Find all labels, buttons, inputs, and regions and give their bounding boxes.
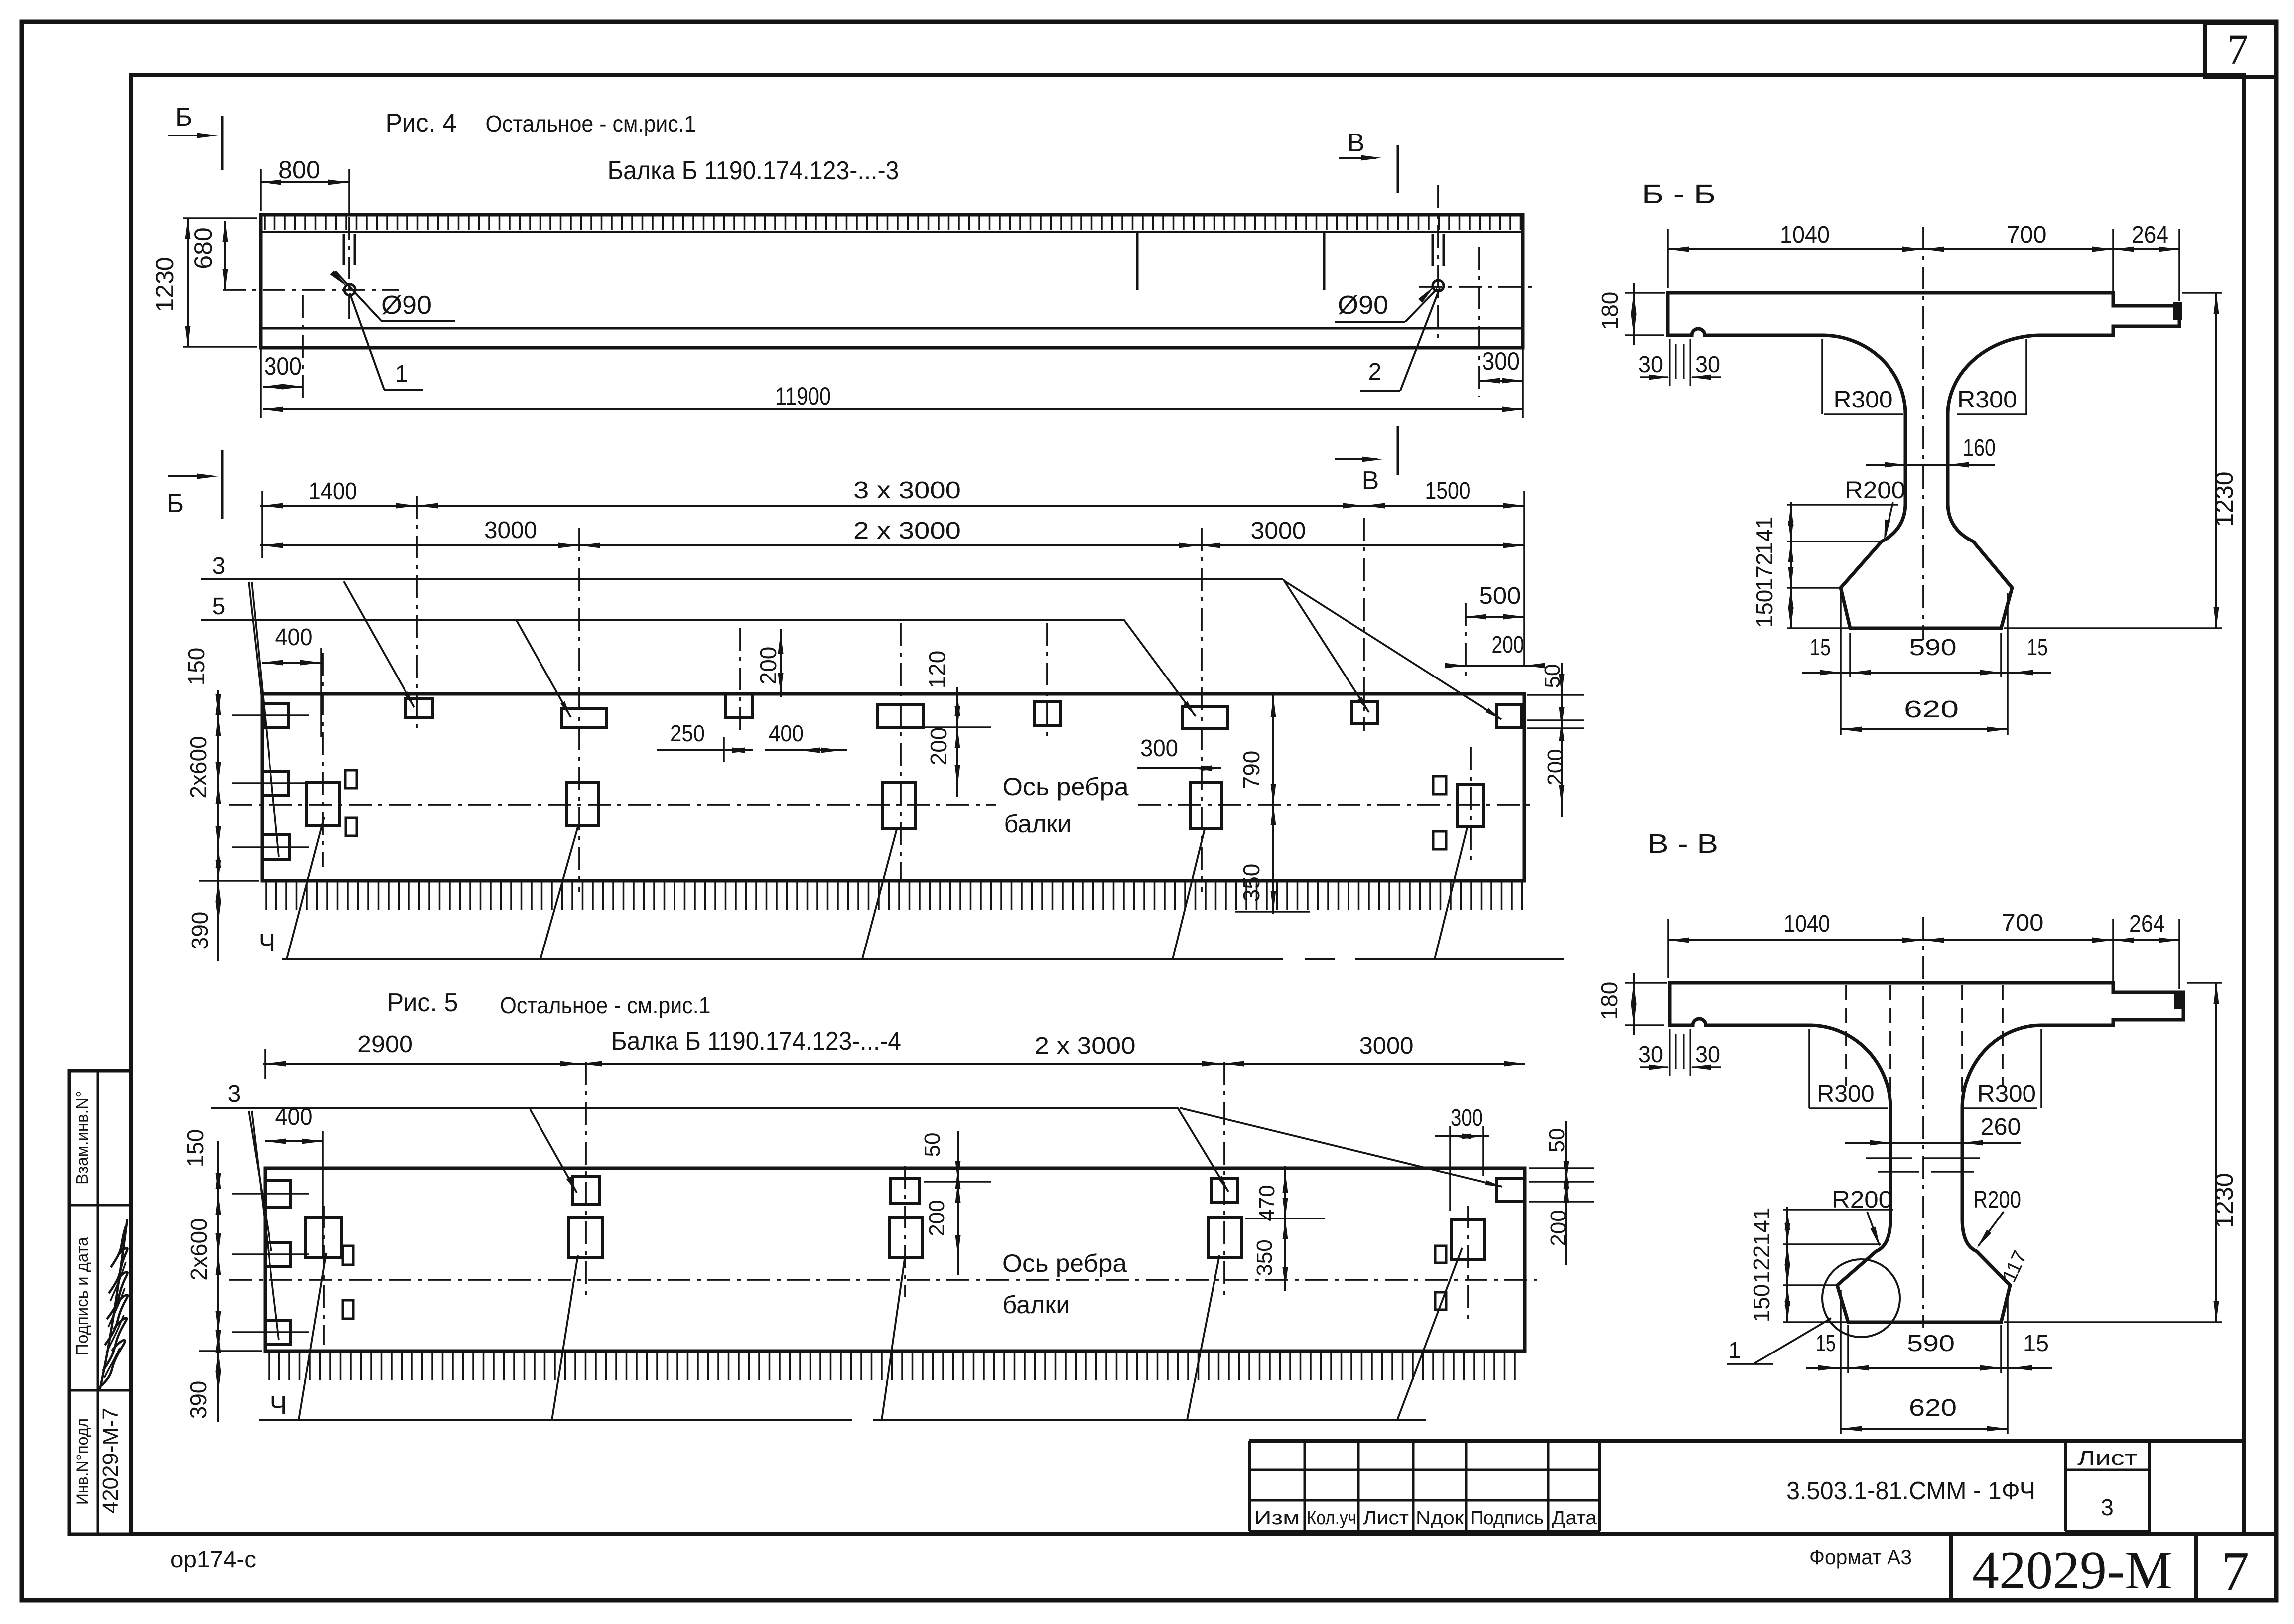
svg-text:160: 160 <box>1963 435 1996 461</box>
svg-text:2 x 3000: 2 x 3000 <box>1035 1033 1136 1059</box>
svg-text:R300: R300 <box>1817 1081 1875 1107</box>
svg-text:150: 150 <box>1752 590 1777 628</box>
svg-text:2900: 2900 <box>357 1031 413 1058</box>
beam elevation outline <box>261 215 1523 348</box>
svg-text:ор174-с: ор174-с <box>170 1546 256 1572</box>
svg-text:264: 264 <box>2132 222 2168 248</box>
plan1 dimension row 1400 / 3x3000 / 1500 <box>260 505 1524 507</box>
svg-text:141: 141 <box>1749 1208 1774 1246</box>
svg-text:Дата: Дата <box>1552 1508 1597 1529</box>
svg-text:15: 15 <box>1810 634 1831 660</box>
section B-B beam profile outline <box>1668 293 2179 628</box>
svg-text:15: 15 <box>2027 634 2048 660</box>
svg-text:Лист: Лист <box>1363 1508 1409 1529</box>
svg-text:700: 700 <box>2007 222 2047 248</box>
plan2 leaders from line 3 <box>530 1109 577 1193</box>
svg-text:балки: балки <box>1004 810 1072 838</box>
svg-text:3: 3 <box>212 553 226 579</box>
plan2 beam outline <box>265 1168 1525 1351</box>
joint mark lines on elevation <box>1136 233 1139 290</box>
svg-text:R300: R300 <box>1834 387 1893 413</box>
svg-text:300: 300 <box>1451 1105 1483 1131</box>
svg-text:1400: 1400 <box>309 478 357 505</box>
svg-text:260: 260 <box>1981 1114 2021 1140</box>
svg-text:Остальное - см.рис.1: Остальное - см.рис.1 <box>500 992 711 1018</box>
svg-text:470: 470 <box>1255 1185 1279 1221</box>
svg-text:2 x 3000: 2 x 3000 <box>853 518 961 544</box>
svg-text:590: 590 <box>1907 1330 1955 1356</box>
plan1 bottom hatching comb <box>266 882 1522 910</box>
section V-V hidden web lines dashed <box>1845 985 1847 1086</box>
svg-text:Б - Б: Б - Б <box>1642 179 1716 209</box>
svg-text:250: 250 <box>670 720 705 746</box>
svg-text:350: 350 <box>1252 1239 1277 1276</box>
svg-text:30: 30 <box>1638 351 1663 377</box>
svg-text:11900: 11900 <box>775 382 831 410</box>
svg-text:400: 400 <box>275 624 313 651</box>
plan2 bottom hatching comb <box>269 1352 1515 1380</box>
svg-text:700: 700 <box>2002 910 2044 936</box>
svg-text:42029-М: 42029-М <box>1972 1541 2172 1600</box>
section B-B centerline <box>1922 227 1924 640</box>
section B-B fillet labels R300 <box>1821 339 1823 414</box>
svg-text:Ось ребра: Ось ребра <box>1002 1249 1127 1277</box>
beam centerline right <box>1419 286 1537 288</box>
svg-text:Изм: Изм <box>1254 1508 1300 1529</box>
svg-text:150: 150 <box>183 648 209 686</box>
svg-text:390: 390 <box>187 912 213 950</box>
svg-text:Ч: Ч <box>270 1391 287 1420</box>
svg-text:30: 30 <box>1695 351 1720 377</box>
section V-V top dimensions 1040 700 264 <box>1668 939 2179 941</box>
svg-text:7: 7 <box>2227 25 2249 73</box>
plan2 rib axis dash-dot line <box>229 1279 1537 1281</box>
plan2 vertical rib axes <box>323 1206 325 1345</box>
svg-text:2x600: 2x600 <box>186 1218 212 1280</box>
svg-text:120: 120 <box>924 651 950 689</box>
svg-text:3.503.1-81.СММ - 1ФЧ: 3.503.1-81.СММ - 1ФЧ <box>1786 1477 2035 1505</box>
svg-text:Ч: Ч <box>259 929 276 957</box>
svg-text:R300: R300 <box>1977 1081 2036 1107</box>
top slab hatching comb <box>265 216 1521 230</box>
svg-text:R200: R200 <box>1845 477 1905 504</box>
svg-text:Балка Б 1190.174.123-...-3: Балка Б 1190.174.123-...-3 <box>608 156 899 185</box>
plan1 leaders from line 4 to squares <box>287 817 324 959</box>
plan2 small embeds <box>343 1246 353 1265</box>
svg-text:15: 15 <box>2023 1330 2049 1356</box>
svg-text:В: В <box>1348 129 1365 157</box>
svg-text:620: 620 <box>1909 1395 1957 1421</box>
stamp signature squiggle <box>100 1219 128 1390</box>
svg-text:Рис. 5: Рис. 5 <box>387 988 458 1017</box>
svg-text:500: 500 <box>1479 583 1521 609</box>
plan2 top edge embed plates <box>265 1180 290 1207</box>
svg-text:800: 800 <box>278 156 320 184</box>
title block revision table <box>1304 1441 1306 1531</box>
plan1 vertical rib axes <box>322 653 324 867</box>
svg-text:15: 15 <box>1816 1330 1836 1356</box>
svg-text:3: 3 <box>2101 1494 2114 1520</box>
svg-text:300: 300 <box>1482 347 1520 375</box>
plan2 left edge embed plates <box>265 1243 290 1266</box>
svg-text:200: 200 <box>1543 749 1568 785</box>
plan1 dimension row 3000 / 2x3000 / 3000 <box>260 544 1524 546</box>
svg-text:3 x 3000: 3 x 3000 <box>853 477 961 504</box>
svg-text:300: 300 <box>264 352 302 380</box>
svg-text:Б: Б <box>175 103 192 132</box>
svg-text:300: 300 <box>1140 735 1178 762</box>
svg-text:390: 390 <box>185 1381 211 1419</box>
svg-text:200: 200 <box>925 1200 949 1236</box>
title block frame <box>1249 1439 2244 1443</box>
svg-text:Инв.N°подл: Инв.N°подл <box>73 1418 91 1505</box>
svg-text:1230: 1230 <box>2210 1173 2238 1228</box>
svg-text:R300: R300 <box>1957 387 2017 413</box>
beam centerline left <box>223 289 399 291</box>
plan1 small embeds near end squares <box>345 770 357 788</box>
section B-B tongue end mark <box>2174 302 2182 319</box>
section V-V detail circle <box>1822 1259 1900 1337</box>
section B-B top dimensions 1040 700 264 <box>1668 248 2179 250</box>
svg-text:3000: 3000 <box>1359 1033 1414 1059</box>
svg-text:3000: 3000 <box>1251 518 1306 544</box>
svg-text:172: 172 <box>1752 553 1777 591</box>
svg-text:400: 400 <box>275 1104 313 1130</box>
svg-text:200: 200 <box>755 647 781 685</box>
left stamp column frame <box>69 1071 131 1534</box>
plan1 rib axis dash-dot line <box>229 804 996 806</box>
plan2 leaders from line 4 to squares <box>299 1253 326 1420</box>
svg-text:балки: балки <box>1003 1291 1070 1319</box>
svg-text:50: 50 <box>920 1133 945 1157</box>
svg-text:180: 180 <box>1596 982 1622 1020</box>
svg-text:42029-М-7: 42029-М-7 <box>98 1408 123 1514</box>
section V-V fillet labels R300 <box>1808 1029 1810 1108</box>
svg-text:Лист: Лист <box>2077 1447 2137 1469</box>
svg-text:30: 30 <box>1695 1041 1720 1067</box>
svg-text:620: 620 <box>1904 696 1959 723</box>
bottom right sheet number 7 <box>2196 1534 2276 1600</box>
lifting hole 1 circle <box>344 284 355 295</box>
section B-B left dimension chain 141 172 150 <box>1790 502 1792 628</box>
section V-V left dimension chain 141 122 150 <box>1786 1207 1788 1322</box>
svg-text:200: 200 <box>1492 632 1524 658</box>
svg-text:680: 680 <box>189 227 217 269</box>
svg-text:В: В <box>1362 466 1379 495</box>
svg-text:Рис. 4: Рис. 4 <box>386 109 457 137</box>
svg-text:2x600: 2x600 <box>185 736 211 798</box>
svg-text:264: 264 <box>2129 911 2165 937</box>
svg-text:150: 150 <box>1749 1284 1774 1323</box>
svg-text:Ø90: Ø90 <box>381 291 432 320</box>
bottom right document box 42029-M <box>1951 1534 2196 1600</box>
svg-text:1040: 1040 <box>1780 222 1830 248</box>
svg-text:590: 590 <box>1909 634 1957 660</box>
plan1 left edge embed plates <box>263 771 289 796</box>
loop slot lines at hole 2 <box>1432 234 1434 266</box>
svg-text:3000: 3000 <box>484 517 537 543</box>
svg-text:3: 3 <box>228 1081 241 1107</box>
svg-text:1230: 1230 <box>2210 471 2238 527</box>
svg-text:400: 400 <box>769 720 804 746</box>
page number box top right <box>2205 23 2276 77</box>
svg-text:В - В: В - В <box>1647 829 1718 859</box>
svg-text:790: 790 <box>1238 751 1264 789</box>
plan2 rib anchor squares <box>306 1218 341 1258</box>
svg-text:350: 350 <box>1238 864 1264 902</box>
svg-text:Nдок: Nдок <box>1416 1508 1464 1529</box>
section V-V tongue end mark <box>2175 992 2182 1008</box>
plan1 top edge embed plates <box>264 703 289 728</box>
svg-text:Взам.инв.N°: Взам.инв.N° <box>73 1091 91 1185</box>
svg-text:Ось ребра: Ось ребра <box>1003 773 1129 801</box>
svg-text:Формат А3: Формат А3 <box>1809 1545 1912 1569</box>
svg-text:7: 7 <box>2221 1541 2249 1603</box>
svg-text:Ø90: Ø90 <box>1338 291 1388 320</box>
plan1 leaders from line 3 <box>344 581 414 707</box>
svg-text:Подпись: Подпись <box>1470 1508 1544 1529</box>
svg-text:2: 2 <box>1368 359 1382 385</box>
svg-text:R200: R200 <box>1973 1187 2021 1213</box>
plan2 dimension row 2900 / 2x3000 / 3000 <box>263 1063 1525 1065</box>
svg-text:150: 150 <box>182 1129 208 1168</box>
svg-text:200: 200 <box>926 727 951 766</box>
svg-text:Остальное - см.рис.1: Остальное - см.рис.1 <box>486 111 696 136</box>
section V-V beam profile outline <box>1670 983 2183 1322</box>
section V-V bottom dimensions 15 590 15 <box>1806 1367 2052 1369</box>
plan1 rib anchor squares <box>307 783 339 826</box>
svg-text:Подпись и дата: Подпись и дата <box>73 1237 91 1355</box>
svg-text:1230: 1230 <box>151 257 179 312</box>
svg-text:Б: Б <box>167 489 184 518</box>
svg-text:Балка Б 1190.174.123-...-4: Балка Б 1190.174.123-...-4 <box>611 1027 901 1056</box>
svg-text:122: 122 <box>1749 1245 1774 1284</box>
svg-text:1: 1 <box>1728 1337 1741 1363</box>
title block list cell <box>2064 1441 2067 1531</box>
svg-text:Кол.уч: Кол.уч <box>1307 1508 1356 1529</box>
lifting hole 2 circle <box>1433 280 1444 291</box>
plan1 leaders from line 5 <box>516 620 571 717</box>
svg-text:1040: 1040 <box>1784 911 1830 937</box>
svg-text:5: 5 <box>212 593 226 620</box>
plan1 beam outline <box>262 694 1524 881</box>
svg-text:1500: 1500 <box>1425 478 1471 504</box>
loop slot lines at hole 1 <box>343 234 345 265</box>
svg-text:141: 141 <box>1752 517 1777 555</box>
section B-B bottom dimensions 15 590 15 <box>1802 672 2051 674</box>
section V-V centerline <box>1922 917 1924 1328</box>
svg-text:1: 1 <box>395 361 408 387</box>
svg-text:180: 180 <box>1597 292 1622 330</box>
svg-text:30: 30 <box>1638 1041 1663 1067</box>
section V-V web transition break dashes <box>1866 1157 1912 1159</box>
